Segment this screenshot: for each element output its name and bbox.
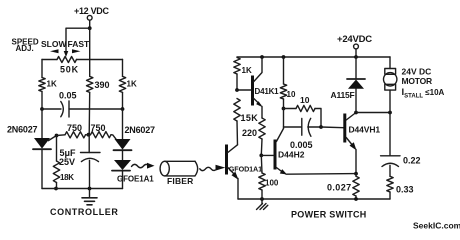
svg-text:2N6027: 2N6027 — [7, 125, 38, 135]
resistor 1K bias — [234, 58, 252, 75]
capacitor 5uF 25V — [59, 135, 100, 189]
svg-text:ADJ.: ADJ. — [16, 44, 34, 53]
node dot rail-24V — [354, 55, 358, 59]
svg-text:50K: 50K — [60, 64, 79, 74]
node base junction dot D41K1 — [235, 88, 239, 92]
label SPEED ADJ. — [12, 37, 39, 53]
node dot 0.027-rail — [354, 197, 358, 201]
fiber optic cable FIBER — [160, 161, 198, 186]
resistor 220 — [242, 118, 265, 139]
svg-text:D41K1: D41K1 — [255, 87, 280, 96]
wire left branch to PUT anode — [41, 109, 43, 138]
svg-text:D44H2: D44H2 — [278, 149, 305, 159]
node mid 750 junction dot — [87, 133, 91, 137]
resistor 0.027 — [327, 174, 359, 199]
node junction dot +12 rail — [88, 26, 92, 30]
wire +12VDC terminal to tee junction — [89, 20, 91, 28]
resistor 15K — [234, 99, 259, 123]
diode A115F — [331, 57, 366, 113]
phototransistor GFOD1A1 — [227, 145, 263, 180]
ground power switch (chassis) — [257, 199, 268, 210]
wire gate node down to 18K — [56, 136, 58, 162]
capacitor 0.22 — [381, 113, 421, 177]
svg-text:10: 10 — [300, 95, 310, 105]
wire 18K to ground rail — [56, 183, 58, 189]
capacitor 0.05 — [42, 91, 123, 117]
wire PUT2 to LED — [122, 150, 124, 160]
wire +12 rail down right side of pot — [89, 28, 91, 59]
resistor 10 vertical — [280, 57, 296, 109]
label FAST with right arrow — [68, 39, 91, 54]
wire GFOD emitter down to rail — [237, 179, 239, 200]
svg-text:GFOD1A1: GFOD1A1 — [229, 164, 262, 173]
transistor D44H2 — [261, 129, 304, 175]
node dot 10ohm junction — [282, 107, 286, 111]
wire 220 to base node D44H2 — [260, 139, 263, 155]
node junction dot right of 0.05 line — [121, 107, 125, 111]
wire D44VH1 emitter down — [355, 150, 357, 174]
resistor 18K — [53, 161, 74, 183]
wire right branch to PUT2 anode — [122, 109, 124, 139]
wire 1K to base node — [236, 74, 238, 90]
resistor 10 horizontal — [284, 95, 322, 127]
svg-text:18K: 18K — [60, 173, 74, 182]
LED GFOE1A1 — [112, 160, 154, 184]
svg-text:SeekIC.com: SeekIC.com — [413, 221, 460, 231]
node dot 18K-rail — [54, 187, 58, 191]
wire collector node to motor node — [356, 112, 390, 114]
wire PUT left cathode down to ground rail — [41, 149, 43, 188]
wire D44H2 emitter to 0.027 node — [286, 173, 356, 176]
svg-text:220: 220 — [242, 128, 257, 138]
svg-text:100: 100 — [265, 179, 279, 188]
node dot 5uF-rail — [88, 187, 92, 191]
wire power ground rail — [238, 198, 390, 200]
node dot rail-10ohm — [282, 55, 286, 59]
svg-text:1K: 1K — [47, 80, 57, 89]
wire pot left end down — [41, 60, 43, 78]
svg-text:750: 750 — [67, 123, 82, 133]
svg-text:MOTOR: MOTOR — [402, 76, 433, 86]
resistor 390 — [87, 60, 110, 93]
svg-text:+24VDC: +24VDC — [337, 34, 372, 45]
svg-text:24V DC: 24V DC — [402, 67, 432, 77]
transistor D44VH1 — [345, 113, 381, 151]
svg-text:A115F: A115F — [331, 90, 355, 100]
svg-text:CONTROLLER: CONTROLLER — [50, 207, 119, 217]
svg-text:15K: 15K — [241, 113, 259, 123]
transistor 2N6027 right (PUT) — [114, 139, 132, 150]
svg-text:0.33: 0.33 — [396, 185, 414, 195]
node +12 VDC supply terminal — [74, 6, 109, 20]
svg-text:0.05: 0.05 — [59, 91, 77, 101]
wire controller ground rail — [42, 188, 123, 190]
wire light emission squiggle LED to fiber — [132, 163, 155, 169]
svg-text:FIBER: FIBER — [167, 176, 194, 186]
svg-text:25V: 25V — [59, 157, 75, 167]
node gate junction dot left — [55, 134, 59, 138]
resistor 750 second — [91, 123, 118, 140]
resistor 0.33 — [387, 176, 414, 199]
transistor 2N6027 left (PUT) — [33, 136, 57, 150]
wire LED to ground rail — [122, 171, 124, 189]
node junction dot left of 0.05 line — [40, 107, 44, 111]
svg-text:390: 390 — [95, 80, 110, 90]
capacitor 0.005 — [284, 118, 322, 150]
wire 10ohm node down to cap line — [283, 109, 285, 129]
node dot D44H2 base junction — [259, 154, 263, 158]
node +24 VDC supply terminal — [337, 34, 372, 49]
motor 24VDC — [384, 57, 445, 113]
svg-text:FAST: FAST — [68, 39, 91, 49]
wire 1K left to bottom line — [41, 92, 43, 110]
svg-text:0.027: 0.027 — [327, 182, 352, 192]
wire GFOD collector to 15K — [236, 121, 239, 145]
svg-text:+12 VDC: +12 VDC — [74, 6, 109, 16]
wire +24 terminal to rail — [355, 49, 357, 57]
svg-text:D44VH1: D44VH1 — [349, 125, 381, 135]
wire to D44VH1 base — [321, 126, 344, 129]
svg-text:1K: 1K — [242, 66, 252, 75]
svg-text:0.22: 0.22 — [403, 156, 421, 166]
resistor 750 first — [57, 123, 86, 138]
svg-text:POWER SWITCH: POWER SWITCH — [291, 210, 367, 220]
resistor 100 — [259, 155, 279, 199]
svg-text:750: 750 — [91, 123, 106, 133]
resistor 1K left — [39, 78, 57, 92]
potentiometer 50K — [42, 57, 123, 75]
wire +24V top rail — [237, 56, 390, 58]
wire between 750s — [86, 134, 91, 136]
transistor D41K1 — [237, 57, 279, 107]
svg-text:1K: 1K — [127, 80, 137, 89]
wire 1K right to bottom line — [122, 92, 124, 109]
node dot collector junction — [354, 111, 358, 115]
svg-text:10: 10 — [287, 90, 296, 99]
node dot rail-D41K1 — [260, 55, 264, 59]
wire 390 down across 0.05 line to 750 junction — [88, 92, 91, 134]
label SLOW with left arrow — [41, 39, 67, 54]
wire wiper branch to potentiometer — [64, 28, 90, 57]
svg-text:SLOW: SLOW — [41, 39, 67, 49]
svg-text:2N6027: 2N6027 — [125, 125, 156, 135]
node dot 100ohm-rail — [260, 197, 264, 201]
node dot 0.027 junction — [354, 172, 358, 176]
wire light squiggle fiber to GFOD1A1 — [200, 165, 226, 171]
resistor 1K right — [119, 60, 137, 93]
wire D41K1 emitter to 220 — [261, 107, 263, 119]
node dot motor bottom junction — [388, 111, 392, 115]
ground controller — [82, 189, 97, 205]
node dot cap-10 junction — [319, 125, 323, 129]
